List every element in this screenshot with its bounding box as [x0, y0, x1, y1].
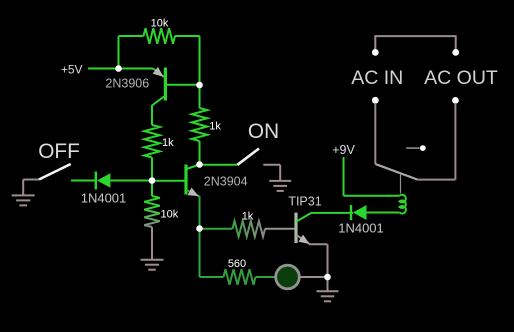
svg-text:1k: 1k: [242, 210, 254, 222]
svg-text:2N3904: 2N3904: [204, 175, 248, 189]
svg-text:560: 560: [228, 258, 246, 270]
svg-text:AC IN: AC IN: [351, 67, 403, 89]
svg-text:1N4001: 1N4001: [81, 191, 127, 206]
svg-text:ON: ON: [248, 120, 279, 143]
svg-text:TIP31: TIP31: [288, 195, 321, 209]
svg-text:+5V: +5V: [61, 63, 83, 77]
svg-text:1k: 1k: [209, 120, 221, 132]
svg-text:1k: 1k: [162, 137, 174, 149]
svg-text:AC OUT: AC OUT: [424, 67, 498, 89]
svg-text:10k: 10k: [161, 209, 179, 221]
svg-text:OFF: OFF: [38, 140, 80, 163]
svg-text:+9V: +9V: [332, 143, 355, 157]
svg-text:2N3906: 2N3906: [105, 77, 149, 91]
svg-text:10k: 10k: [151, 18, 169, 30]
svg-text:1N4001: 1N4001: [338, 221, 384, 236]
